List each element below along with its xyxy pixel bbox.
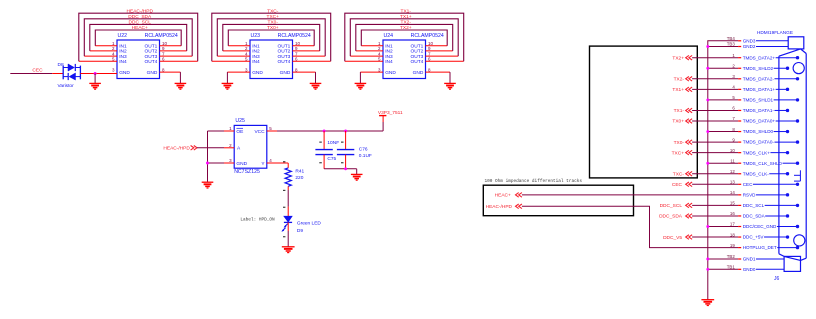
ground right of U24	[444, 82, 456, 84]
svg-text:3: 3	[112, 67, 115, 72]
shell tie symbol at pin 12	[794, 170, 800, 181]
pin 1 IN1 stub of U24	[361, 45, 383, 47]
pin 7 OUT3 stub of U22	[160, 55, 193, 57]
wire to right ground of U24	[449, 72, 451, 83]
svg-text:IN4: IN4	[252, 59, 260, 65]
wire CEC to connector pin 13	[692, 183, 738, 185]
svg-text:TMDS_DATA1+: TMDS_DATA1+	[743, 87, 776, 92]
svg-text:Label: HPD_ON: Label: HPD_ON	[240, 218, 275, 223]
pin 9 OUT2 stub of U22	[160, 50, 187, 52]
svg-text:RCLAMP0524: RCLAMP0524	[145, 33, 178, 39]
pin 2 IN2 stub of U22	[90, 50, 117, 52]
pin 5 IN4 stub of U22	[79, 60, 117, 62]
pin 19 HOTPLUG_DET of J6	[730, 243, 799, 250]
pin 17 DDC/CEC_GND of J6	[730, 222, 799, 229]
pin 5 IN4 stub of U24	[345, 60, 383, 62]
wire rail to power symbol	[382, 122, 384, 131]
wire HEAC-/HPD to connector pin 19	[522, 206, 738, 247]
svg-text:TX0-: TX0-	[674, 140, 685, 146]
pin TB2 GND1 of J6	[727, 254, 784, 261]
svg-text:GND1: GND1	[743, 257, 756, 262]
svg-text:OUT4: OUT4	[278, 59, 291, 65]
pin 10 TMDS_CLK+ of J6	[730, 148, 789, 155]
svg-text:NC7SZ125: NC7SZ125	[234, 169, 260, 175]
svg-text:12: 12	[730, 169, 735, 174]
wire Y to resistor	[277, 162, 288, 164]
wire TXC+ to connector pin 10	[692, 152, 738, 154]
pin 4 IN3 stub of U22	[84, 55, 117, 57]
svg-text:TB3: TB3	[727, 42, 736, 47]
svg-text:DDC/CEC_GND: DDC/CEC_GND	[743, 224, 777, 229]
node junction bus/TB1	[706, 268, 709, 271]
wire TX1+ to connector pin 4	[692, 88, 738, 90]
svg-text:TMDS_DATA1-: TMDS_DATA1-	[743, 108, 775, 113]
wire loop net HEAC-/HPD around U22	[79, 13, 198, 61]
svg-text:TX2-: TX2-	[401, 20, 412, 26]
svg-text:100 Ohm impedance differential: 100 Ohm impedance differential tracks	[485, 179, 583, 184]
svg-text:OUT4: OUT4	[411, 59, 424, 65]
svg-text:RSVD: RSVD	[743, 192, 756, 197]
node junction bus/TB3	[706, 45, 709, 48]
svg-text:GND3: GND3	[743, 38, 756, 43]
svg-text:6: 6	[162, 57, 165, 62]
ESD clamp IC U24 RCLAMP0524	[383, 33, 444, 78]
wire loop net TXC- around U23	[212, 13, 331, 61]
resistor R41	[285, 168, 291, 186]
wire loop net TX1- around U24	[345, 13, 464, 61]
svg-text:A: A	[237, 146, 241, 152]
svg-text:OE: OE	[236, 129, 243, 135]
svg-text:C75: C75	[327, 156, 336, 162]
wire TX2- to connector pin 3	[692, 78, 738, 80]
pin 5 TMDS_SHLD1 of J6	[732, 95, 799, 102]
wire GND pin to tie	[224, 162, 234, 164]
pin 12 TMDS_CLK- of J6	[730, 169, 789, 176]
svg-text:OUT2: OUT2	[278, 49, 291, 55]
svg-text:15: 15	[730, 201, 735, 206]
pin mark D9-anode	[283, 206, 285, 208]
svg-text:IN2: IN2	[385, 49, 393, 55]
svg-text:TX0+: TX0+	[672, 119, 684, 125]
svg-text:HEAC+: HEAC+	[495, 193, 511, 199]
mounting hole top of J6	[793, 63, 804, 74]
svg-text:OUT2: OUT2	[411, 49, 424, 55]
svg-text:IN3: IN3	[385, 54, 393, 60]
ground at U25	[202, 181, 214, 183]
pin TB3 GND2 of J6	[727, 42, 788, 49]
svg-text:GND: GND	[119, 70, 130, 76]
svg-text:TMDS_CLK_SHLD: TMDS_CLK_SHLD	[743, 161, 783, 166]
svg-text:IN1: IN1	[385, 44, 393, 50]
pin 4 IN3 stub of U24	[350, 55, 383, 57]
ESD clamp IC U22 RCLAMP0524	[117, 33, 178, 78]
svg-text:1: 1	[732, 53, 735, 58]
svg-text:IN4: IN4	[385, 59, 393, 65]
wire shield pin 8 to bus	[708, 131, 738, 133]
node junction bus/TB2	[706, 258, 709, 261]
pin 9 TMDS_DATA0- of J6	[732, 137, 799, 144]
hierarchical block (HEAC ports)	[483, 185, 633, 216]
wire TX0- to connector pin 9	[692, 141, 738, 143]
svg-text:TXC-: TXC-	[267, 8, 279, 14]
svg-text:TMDS_CLK+: TMDS_CLK+	[743, 150, 771, 155]
ground left of U23	[222, 82, 234, 84]
svg-text:U25: U25	[235, 118, 245, 124]
wire loop net TX0+ around U23	[228, 30, 314, 46]
svg-text:6: 6	[295, 57, 298, 62]
wire loop net DDC_SDA around U22	[84, 19, 192, 56]
svg-text:3: 3	[245, 67, 248, 72]
pin 10 OUT1 stub of U22	[160, 45, 182, 47]
capacitor C76	[337, 131, 354, 169]
node junction bus/pin 17	[706, 225, 709, 228]
svg-text:CEC: CEC	[672, 182, 683, 188]
svg-text:TMDS_SHLD1: TMDS_SHLD1	[743, 98, 774, 103]
wire CEC to varistor	[52, 73, 63, 75]
wire OE to tie-down	[224, 130, 234, 132]
svg-text:4: 4	[269, 158, 272, 163]
pin 13 CEC of J6	[730, 180, 799, 187]
svg-text:TMDS_DATA2+: TMDS_DATA2+	[743, 55, 776, 60]
svg-text:HEAC+: HEAC+	[132, 25, 148, 31]
pin mark C76-1	[341, 141, 344, 143]
svg-text:OUT3: OUT3	[145, 54, 158, 60]
wire loop net HEAC+ around U22	[95, 30, 181, 46]
varistor D8	[63, 64, 80, 80]
buffer U25 NC7SZ125	[234, 118, 267, 175]
pin 3 GND stub of U24	[360, 71, 383, 73]
pin 10 OUT1 stub of U24	[426, 45, 448, 47]
node junction OE-GND tie	[206, 162, 209, 165]
wire TB3 to bus	[708, 46, 738, 48]
wire CEC from left	[10, 73, 52, 75]
svg-text:TX2-: TX2-	[674, 77, 685, 83]
pin 3 TMDS_DATA2- of J6	[732, 74, 799, 81]
pin 3 GND stub of U23	[227, 71, 250, 73]
svg-text:D8: D8	[58, 62, 64, 68]
svg-text:13: 13	[730, 180, 735, 185]
pin 5 IN4 stub of U23	[212, 60, 250, 62]
wire shield pin 17 to bus	[708, 226, 738, 228]
pin 4 TMDS_DATA1+ of J6	[732, 85, 789, 92]
pin 16 DDC_SDA of J6	[730, 211, 789, 218]
svg-text:17: 17	[730, 222, 735, 227]
pin 9 OUT2 stub of U23	[293, 50, 320, 52]
svg-text:TB1: TB1	[727, 265, 736, 270]
svg-text:GND: GND	[413, 70, 424, 76]
svg-text:TX0-: TX0-	[268, 20, 279, 26]
pin mark C75-2	[319, 162, 322, 164]
svg-text:TX2+: TX2+	[672, 55, 684, 61]
svg-text:0.1UF: 0.1UF	[359, 153, 372, 159]
pin 6 OUT4 stub of U22	[160, 60, 198, 62]
svg-text:5: 5	[112, 57, 115, 62]
svg-text:Varistor: Varistor	[58, 83, 75, 89]
svg-text:TX1-: TX1-	[674, 108, 685, 114]
wire to right ground of U22	[179, 72, 181, 83]
svg-text:VCC: VCC	[254, 129, 265, 135]
svg-text:OUT1: OUT1	[278, 44, 291, 50]
svg-text:8: 8	[428, 67, 431, 72]
pin 5 VCC stub	[267, 130, 277, 132]
wire loop net TX0- around U23	[223, 24, 320, 51]
ESD clamp IC U23 RCLAMP0524	[250, 33, 311, 78]
svg-text:14: 14	[730, 190, 735, 195]
svg-text:D9: D9	[297, 228, 303, 234]
svg-text:IN2: IN2	[252, 49, 260, 55]
wire loop net TX2+ around U24	[361, 30, 447, 46]
node junction bus/pin 11	[706, 162, 709, 165]
svg-text:220: 220	[295, 175, 303, 181]
pin 15 DDC_SCL of J6	[730, 201, 799, 208]
svg-text:DDC_SCL: DDC_SCL	[660, 203, 683, 209]
svg-text:5: 5	[378, 57, 381, 62]
pin 6 OUT4 stub of U23	[293, 60, 331, 62]
svg-text:OUT2: OUT2	[145, 49, 158, 55]
svg-text:TX0+: TX0+	[267, 25, 279, 31]
ground at connector bus	[701, 299, 714, 301]
pin TB4 GND3 of J6	[727, 36, 788, 43]
svg-text:R41: R41	[295, 168, 304, 174]
svg-text:8: 8	[295, 67, 298, 72]
svg-text:HEAC-/HPD: HEAC-/HPD	[127, 8, 154, 14]
wire resistor to LED	[287, 186, 289, 190]
ground at caps	[351, 173, 363, 175]
wire to left ground of U24	[359, 72, 361, 83]
svg-text:GND0: GND0	[743, 267, 756, 272]
pin mark R41-1	[283, 161, 285, 163]
wire shield pin 2 to bus	[708, 67, 738, 69]
svg-text:TXC-: TXC-	[673, 171, 685, 177]
svg-text:TX2+: TX2+	[400, 25, 412, 31]
svg-text:DDC_V5: DDC_V5	[663, 235, 682, 241]
capacitor C75	[315, 131, 332, 169]
pin 10 OUT1 stub of U23	[293, 45, 315, 47]
svg-text:TX1+: TX1+	[672, 87, 684, 93]
svg-text:TX1-: TX1-	[401, 8, 412, 14]
svg-text:OUT3: OUT3	[278, 54, 291, 60]
svg-text:GND: GND	[252, 70, 263, 76]
wire OE/GND tie vertical	[207, 131, 209, 182]
wire loop net DDC_SCL around U22	[90, 24, 187, 51]
svg-text:TMDS_CLK-: TMDS_CLK-	[743, 171, 770, 176]
wire rail to ground	[356, 169, 358, 175]
ground at LED	[282, 246, 295, 248]
svg-text:IN2: IN2	[119, 49, 127, 55]
svg-text:2: 2	[732, 63, 735, 68]
pin mark C75-1	[319, 141, 322, 143]
svg-text:OUT1: OUT1	[145, 44, 158, 50]
svg-text:GND: GND	[147, 70, 158, 76]
pin 8 GND stub of U24	[426, 71, 451, 73]
wire varistor to ground node	[80, 73, 95, 75]
ground left of U24	[355, 82, 367, 84]
wire TB2 to bus	[708, 258, 738, 260]
pin 7 OUT3 stub of U23	[293, 55, 326, 57]
svg-text:IN3: IN3	[119, 54, 127, 60]
svg-text:3: 3	[732, 74, 735, 79]
node junction C75/rail	[323, 130, 326, 133]
pin 2 IN2 stub of U24	[356, 50, 383, 52]
svg-text:TMDS_SHLD0: TMDS_SHLD0	[743, 129, 774, 134]
svg-text:3: 3	[229, 158, 232, 163]
svg-text:HDMI19FLANGE: HDMI19FLANGE	[757, 30, 793, 35]
svg-text:TMDS_DATA0-: TMDS_DATA0-	[743, 140, 775, 145]
svg-text:GND2: GND2	[743, 44, 756, 49]
svg-text:HEAC-/HPD: HEAC-/HPD	[486, 204, 513, 210]
pin mark C76-2	[341, 162, 344, 164]
pin 3 GND stub of U22 (to varistor node)	[95, 73, 117, 75]
wire HEAC+ to connector pin 14	[522, 194, 738, 196]
wire TXC- to connector pin 12	[692, 173, 738, 175]
node junction bus/pin 5	[706, 98, 709, 101]
pin 8 GND stub of U23	[293, 71, 316, 73]
svg-text:TMDS_SHLD2: TMDS_SHLD2	[743, 66, 774, 71]
svg-text:U22: U22	[118, 33, 128, 39]
svg-text:J6: J6	[774, 276, 780, 282]
pin 6 OUT4 stub of U24	[426, 60, 464, 62]
ground at varistor	[89, 82, 101, 84]
svg-text:5: 5	[269, 126, 272, 131]
pin 18 DDC_+5V of J6	[730, 232, 789, 239]
svg-text:OUT1: OUT1	[411, 44, 424, 50]
pin 2 TMDS_SHLD2 of J6	[732, 63, 789, 70]
wire node to U22 pin3	[95, 73, 117, 75]
svg-text:IN1: IN1	[119, 44, 127, 50]
svg-text:GND: GND	[236, 161, 247, 167]
ground right of U22	[175, 82, 187, 84]
svg-text:U24: U24	[384, 33, 394, 39]
pin 6 TMDS_DATA1- of J6	[732, 106, 789, 113]
pin mark R41-2	[283, 189, 285, 191]
wire shield pin 11 to bus	[708, 162, 738, 164]
svg-text:7: 7	[732, 116, 735, 121]
svg-text:TMDS_DATA2-: TMDS_DATA2-	[743, 76, 775, 81]
svg-text:10: 10	[730, 148, 735, 153]
svg-text:HOTPLUG_DET: HOTPLUG_DET	[743, 245, 777, 250]
wire node to ground	[94, 74, 96, 84]
wire cap bottom rail	[324, 168, 357, 170]
svg-text:IN4: IN4	[119, 59, 127, 65]
svg-text:Y: Y	[261, 161, 265, 167]
wire VCC rail	[277, 130, 383, 132]
svg-text:TX1+: TX1+	[400, 14, 412, 20]
svg-text:18: 18	[730, 232, 735, 237]
pin 1 IN1 stub of U23	[228, 45, 250, 47]
svg-text:DDC_SCL: DDC_SCL	[743, 203, 765, 208]
ground right of U23	[310, 82, 322, 84]
wire to left ground of U23	[226, 72, 228, 83]
pin 2 IN2 stub of U23	[223, 50, 250, 52]
svg-text:9: 9	[732, 137, 735, 142]
node junction C76/gnd rail	[344, 167, 347, 170]
wire TX1- to connector pin 6	[692, 109, 738, 111]
pin 1 TMDS_DATA2+ of J6	[732, 53, 799, 60]
svg-text:6: 6	[428, 57, 431, 62]
pin 9 OUT2 stub of U24	[426, 50, 453, 52]
svg-text:16: 16	[730, 211, 735, 216]
wire DDC_V5 to connector pin 18	[692, 236, 738, 238]
wire LED to ground	[287, 222, 289, 231]
svg-text:U23: U23	[251, 33, 261, 39]
node junction C76/rail	[344, 130, 347, 133]
pin 11 TMDS_CLK_SHLD of J6	[730, 158, 799, 165]
pin 4 Y stub	[267, 162, 277, 164]
LED D9	[281, 216, 292, 232]
pin TB1 GND0 of J6	[727, 265, 784, 272]
svg-text:2: 2	[229, 143, 232, 148]
svg-text:RCLAMP0524: RCLAMP0524	[411, 33, 444, 39]
svg-text:IN1: IN1	[252, 44, 260, 50]
wire DDC_SDA to connector pin 16	[692, 215, 738, 217]
svg-text:DDC_SDA: DDC_SDA	[659, 214, 683, 220]
svg-text:CEC: CEC	[743, 182, 753, 187]
svg-text:19: 19	[730, 243, 735, 248]
pin mark D9-cathode	[283, 236, 285, 238]
svg-text:4: 4	[732, 85, 735, 90]
pin 8 GND stub of U22	[160, 71, 181, 73]
wire shield pin 5 to bus	[708, 99, 738, 101]
wire to right ground of U23	[315, 72, 317, 83]
svg-text:DDC_SCL: DDC_SCL	[129, 20, 152, 26]
wire loop net TX1+ around U24	[350, 19, 458, 56]
svg-text:8: 8	[732, 127, 735, 132]
svg-text:DDC_SDA: DDC_SDA	[128, 14, 152, 20]
svg-text:GND: GND	[280, 70, 291, 76]
power symbol V3P3_7511	[379, 115, 386, 117]
pin 1 IN1 stub of U22	[95, 45, 117, 47]
svg-text:6: 6	[732, 106, 735, 111]
wire loop net TX2- around U24	[356, 24, 453, 51]
pin 7 OUT3 stub of U24	[426, 55, 459, 57]
node junction bus/pin 8	[706, 130, 709, 133]
svg-text:8: 8	[162, 67, 165, 72]
mounting hole bottom of J6	[794, 235, 805, 246]
pin 4 IN3 stub of U23	[217, 55, 250, 57]
wire HEAC-/HPD to pin A	[197, 147, 224, 149]
node junction bus/pin 2	[706, 67, 709, 70]
pin 8 TMDS_SHLD0 of J6	[732, 127, 789, 134]
svg-text:DDC_SDA: DDC_SDA	[743, 214, 766, 219]
svg-text:C76: C76	[359, 147, 368, 153]
node junction varistor/GND	[94, 72, 97, 75]
svg-text:Green LED: Green LED	[297, 220, 322, 226]
svg-text:11: 11	[730, 158, 735, 163]
hierarchical block (differential pairs)	[590, 46, 698, 178]
svg-text:OUT4: OUT4	[145, 59, 158, 65]
svg-text:TXC+: TXC+	[267, 14, 280, 20]
svg-text:5: 5	[245, 57, 248, 62]
svg-text:3: 3	[378, 67, 381, 72]
svg-text:TB4: TB4	[727, 36, 736, 41]
wire loop net TXC+ around U23	[217, 19, 325, 56]
svg-text:OUT3: OUT3	[411, 54, 424, 60]
wire TX0+ to connector pin 7	[692, 120, 738, 122]
svg-text:RCLAMP0524: RCLAMP0524	[278, 33, 311, 39]
pin 14 RSVD of J6	[730, 190, 789, 197]
svg-text:IN3: IN3	[252, 54, 260, 60]
wire ground bus vertical	[708, 41, 738, 300]
svg-text:GND: GND	[385, 70, 396, 76]
svg-text:TMDS_DATA0+: TMDS_DATA0+	[743, 119, 776, 124]
svg-text:10NF: 10NF	[327, 140, 339, 146]
svg-text:CEC: CEC	[32, 68, 43, 74]
svg-text:TXC+: TXC+	[672, 150, 685, 156]
wire TB1 to bus	[708, 268, 738, 270]
wire DDC_SCL to connector pin 15	[692, 204, 738, 206]
svg-text:1: 1	[229, 126, 232, 131]
svg-text:HEAC-/HPD: HEAC-/HPD	[163, 146, 190, 152]
